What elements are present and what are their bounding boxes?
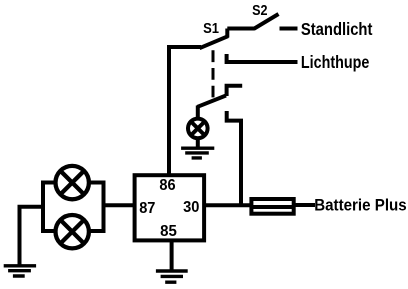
- svg-text:87: 87: [139, 200, 155, 217]
- S1 pole2 upper contact bracket: [225, 86, 243, 96]
- svg-text:S2: S2: [252, 3, 267, 19]
- wire pin85 to ground: [170, 241, 174, 270]
- wire lamps to left ground: [20, 207, 44, 265]
- lamp L3: [188, 119, 208, 139]
- wire pin86 to S1: [169, 47, 201, 175]
- wire pin30 to fuse (node B junction): [204, 203, 251, 207]
- wire lever hinge to lamp L3: [196, 106, 200, 118]
- switch S1 lever: [200, 36, 229, 48]
- relay K1 box: [135, 175, 205, 240]
- S1 pole2 lower contact bracket / wire to node B: [225, 111, 241, 205]
- S1 pole2 lever: [198, 96, 227, 107]
- ground pin85: [156, 271, 188, 282]
- ground left: [4, 266, 36, 276]
- lamp L2: [55, 215, 88, 248]
- wire fuse to Batterie Plus: [294, 203, 315, 207]
- mechanical link S1 (dashed): [212, 50, 215, 97]
- ground lamp L3: [181, 148, 214, 158]
- wire lamp L3 to ground: [196, 138, 200, 147]
- svg-text:S1: S1: [203, 21, 219, 37]
- svg-text:Standlicht: Standlicht: [301, 19, 373, 39]
- lamp bracket right: [89, 183, 104, 232]
- svg-text:86: 86: [159, 177, 175, 194]
- wire S1 contact to S2: [227, 27, 254, 31]
- switch S1 fixed contact: [225, 29, 229, 38]
- lamp L1: [55, 166, 88, 199]
- wire S2 to Standlicht: [280, 27, 298, 31]
- wire pin87 to lamps: [104, 203, 135, 207]
- svg-text:85: 85: [160, 223, 177, 240]
- svg-text:Lichthupe: Lichthupe: [301, 52, 370, 72]
- svg-text:Batterie Plus: Batterie Plus: [314, 197, 407, 215]
- wire Lichthupe with contact stub: [225, 54, 298, 62]
- fuse F1: [251, 199, 293, 214]
- svg-text:30: 30: [183, 199, 199, 216]
- lamp bracket left: [43, 183, 56, 232]
- switch S2 lever: [254, 14, 279, 29]
